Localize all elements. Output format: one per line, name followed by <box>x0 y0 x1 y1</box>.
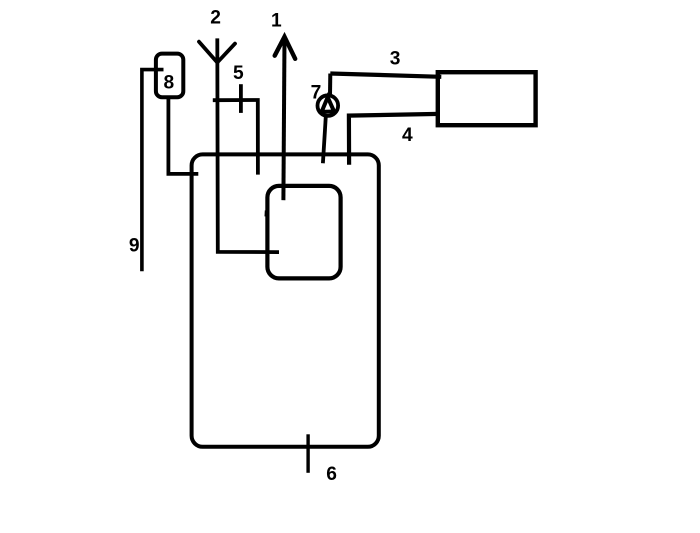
pump 7 drop line (from pump down through tank top) <box>323 116 326 163</box>
svg-text:4: 4 <box>402 125 413 146</box>
pump 7 riser (from line 3 corner down to pump circle) <box>328 74 332 96</box>
antenna 2 left branch <box>199 42 217 63</box>
svg-text:2: 2 <box>210 7 221 28</box>
stub 6 (tick through tank bottom) <box>306 434 309 473</box>
svg-text:1: 1 <box>271 10 282 31</box>
line from box 8 into tank <box>168 97 198 174</box>
antenna 2 right branch <box>217 44 235 63</box>
pump 7 triangle (upward) <box>322 97 335 112</box>
inner vessel edge blip <box>265 211 268 217</box>
antenna 2 (vertical mast with V top, runs down into tank then right into inner vessel) <box>217 38 279 252</box>
line 5 branch (horizontal from antenna mast, corner down through tank top) <box>213 100 258 175</box>
line 4 (box to tank, corner down through tank top) <box>349 114 440 165</box>
svg-text:9: 9 <box>129 235 140 256</box>
line 3 (pump to box) <box>330 74 441 77</box>
svg-text:3: 3 <box>390 49 401 70</box>
svg-text:5: 5 <box>233 63 244 84</box>
arrow 1 shaft (vertical line from inner vessel up) <box>283 38 284 200</box>
inner vessel (rounded rectangle inside tank) <box>267 186 340 279</box>
box (right rectangle) <box>438 72 536 125</box>
svg-text:6: 6 <box>326 464 337 485</box>
pump 7 circle <box>318 95 339 116</box>
svg-text:7: 7 <box>311 82 322 103</box>
tick 5 (short crossing tick) <box>239 84 243 113</box>
sensor box 8 (small rounded rectangle) <box>156 54 183 98</box>
arrow 1 head <box>275 37 296 59</box>
svg-text:8: 8 <box>164 72 175 93</box>
line 9 (vertical line with top corner into box 8) <box>142 70 164 272</box>
tank vessel (main rounded rectangle) <box>192 154 379 446</box>
